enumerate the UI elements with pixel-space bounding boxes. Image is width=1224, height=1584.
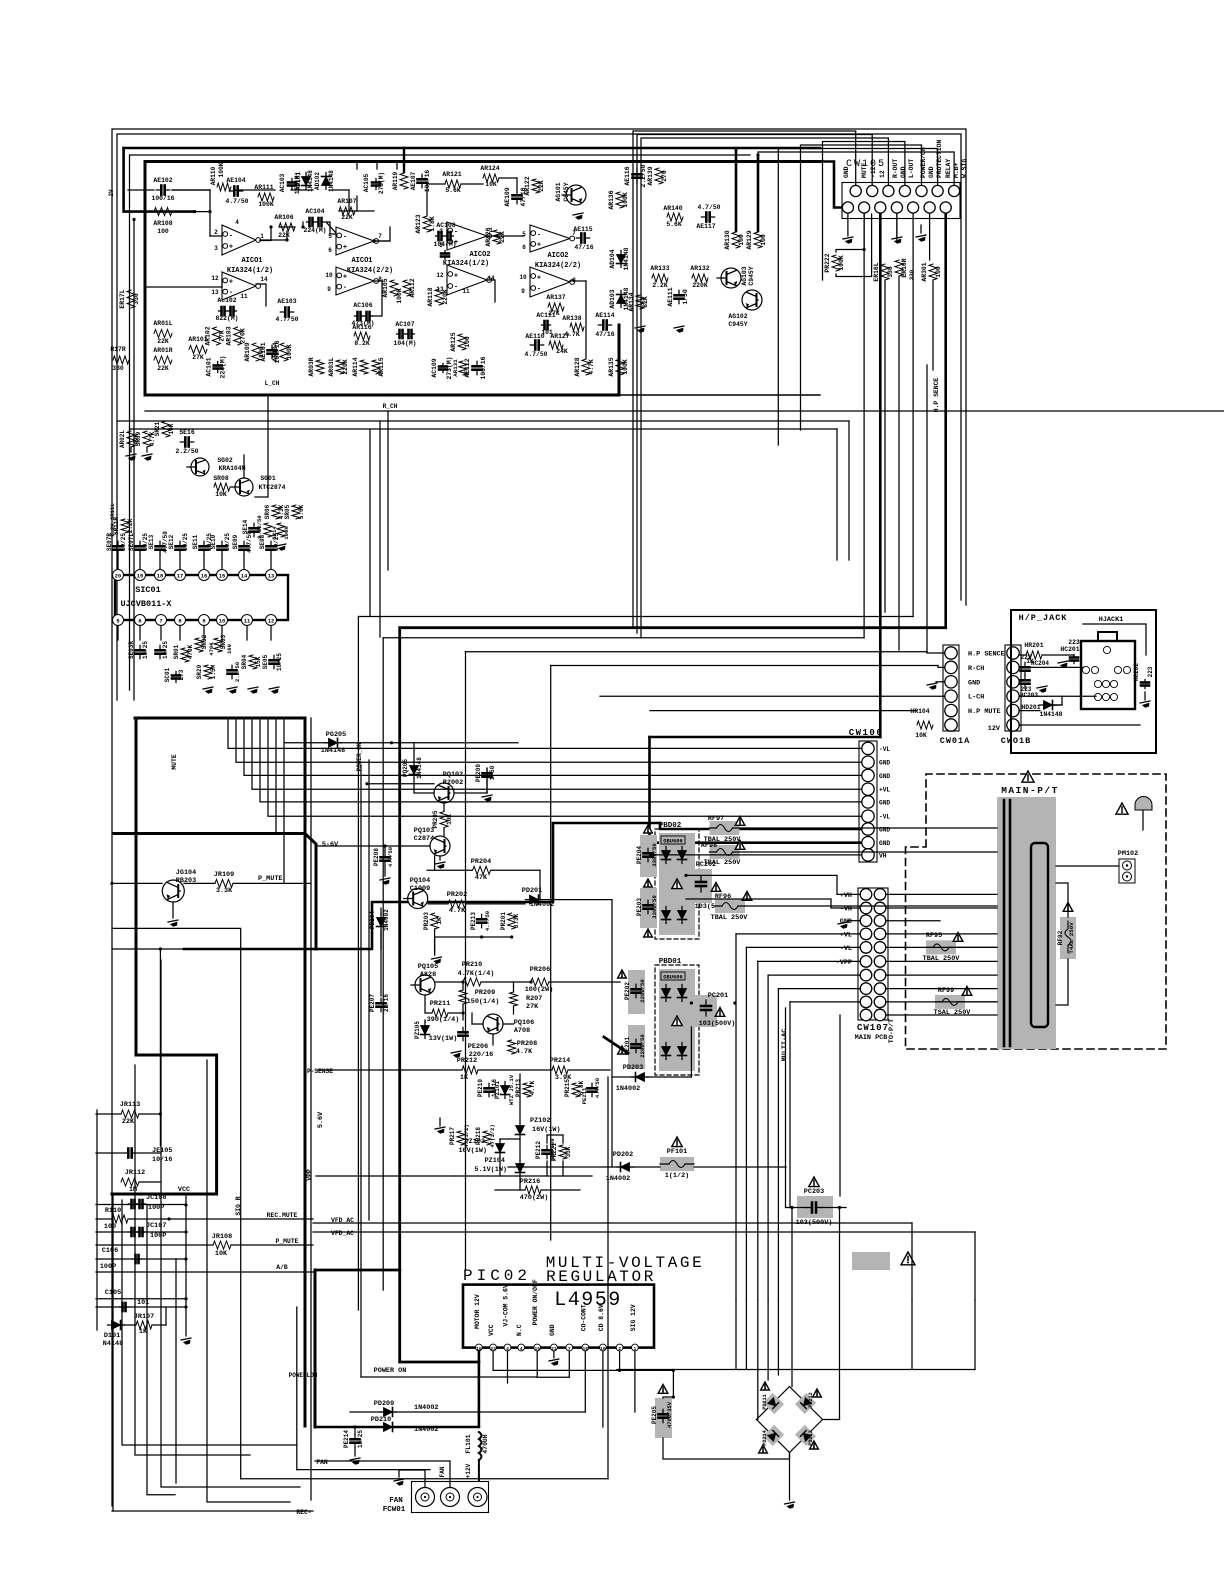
- resistor AR101: [188, 336, 207, 361]
- IC PIC02 title line1: [546, 1254, 705, 1272]
- resistor AR124: [480, 165, 499, 188]
- svg-text:GND: GND: [879, 760, 890, 767]
- wire ER16L down: [884, 280, 886, 612]
- node CW107 +VH label: [840, 892, 852, 900]
- connector FCW01 label: [383, 1497, 406, 1514]
- wire VPP row to PF101: [508, 1166, 786, 1168]
- capacitor HC202: [1133, 663, 1154, 709]
- resistor AR103: [226, 326, 247, 345]
- wire CW106 feed y=762.2: [236, 718, 861, 762]
- capacitor AE110: [524, 333, 547, 358]
- svg-text:SR01: SR01: [173, 644, 180, 659]
- svg-text:1(1/2): 1(1/2): [665, 1172, 689, 1180]
- wire CW106 feed y=816.2: [268, 718, 861, 816]
- svg-text:104(M): 104(M): [433, 241, 456, 248]
- wire PZ chain: [519, 1074, 521, 1190]
- capacitor HC204: [1021, 654, 1050, 676]
- wire AIC02 out to AIC02b: [497, 235, 524, 237]
- zener PZ104: [474, 1157, 524, 1177]
- wire bus 369: [368, 760, 370, 1220]
- wire A/B left segment: [96, 1271, 313, 1273]
- node CW01A L-CH label: [968, 694, 984, 702]
- resistor AR112: [403, 278, 416, 297]
- svg-text:-: -: [229, 289, 233, 297]
- svg-text:AD103: AD103: [609, 289, 616, 308]
- resistor PR222: [824, 214, 872, 277]
- wire rail drop x849: [848, 421, 850, 560]
- svg-text:AE116: AE116: [624, 166, 631, 185]
- svg-text:6: 6: [138, 619, 141, 625]
- wire CW106 feed y=775.4: [244, 718, 861, 775]
- svg-text:100K: 100K: [622, 192, 629, 208]
- svg-text:PC203: PC203: [804, 1188, 824, 1196]
- wire CW107 row feed y=975.1: [768, 974, 860, 976]
- svg-text:3.3K: 3.3K: [513, 913, 520, 928]
- node CW106 -VL label: [879, 814, 890, 821]
- transformer primary bars: [1004, 800, 1010, 1046]
- wire CW107 row feed y=1001.9: [790, 1001, 860, 1003]
- node PIC02 pin 8 CO-CONT: [580, 1304, 588, 1352]
- wire AC103 node: [339, 190, 357, 211]
- svg-text:22K: 22K: [122, 1118, 135, 1126]
- wire nest v4: [551, 666, 944, 1241]
- svg-text:10: 10: [519, 274, 527, 281]
- connector CW106 label: [849, 728, 884, 738]
- wire SIG 12V down: [634, 1351, 636, 1412]
- svg-text:4.7K(1/4): 4.7K(1/4): [458, 970, 495, 978]
- svg-text:SR06: SR06: [264, 504, 271, 519]
- wire PE207 net: [380, 932, 382, 996]
- diode AD103: [609, 287, 630, 310]
- resistor AR122: [524, 176, 545, 195]
- resistor PR217: [449, 1124, 470, 1148]
- wire pin10 down: [619, 1351, 621, 1370]
- capacitor PC203: [786, 1177, 846, 1227]
- wire PE205 to bridge bottom: [663, 1438, 790, 1459]
- svg-text:10K: 10K: [215, 1250, 228, 1258]
- svg-text:100K: 100K: [218, 162, 225, 177]
- diode PBD02 D4: [678, 907, 687, 924]
- node PIC02 pin 4 N.C: [516, 1324, 524, 1352]
- svg-text:100K: 100K: [622, 359, 629, 375]
- svg-text:1K: 1K: [460, 1074, 469, 1082]
- node REC- label: [296, 1509, 311, 1516]
- resistor R110: [104, 1207, 128, 1231]
- svg-text:PR206: PR206: [530, 966, 550, 974]
- connector CW105 bottom pin row: [842, 202, 951, 213]
- svg-text:5: 5: [116, 619, 119, 625]
- svg-text:-VPP: -VPP: [836, 959, 852, 967]
- svg-text:C945Y: C945Y: [748, 266, 755, 285]
- svg-text:4.7K: 4.7K: [588, 359, 595, 375]
- svg-text:270: 270: [661, 170, 668, 182]
- svg-text:22K: 22K: [341, 214, 353, 221]
- wire PZ103 branch: [500, 1139, 520, 1176]
- svg-text:4.7/50: 4.7/50: [697, 204, 720, 211]
- resistor AR125: [450, 332, 471, 351]
- svg-text:6: 6: [522, 244, 526, 251]
- svg-text:SIC01: SIC01: [135, 585, 161, 595]
- transformer body: [997, 797, 1056, 1049]
- svg-text:PE207: PE207: [369, 994, 376, 1012]
- svg-text:15K: 15K: [255, 656, 262, 667]
- svg-text:2.2K SR11L: 2.2K SR11L: [109, 503, 116, 537]
- svg-text:AR103: AR103: [226, 326, 233, 345]
- wire CW107 right y=1015: [886, 1014, 997, 1016]
- svg-text:PE214: PE214: [343, 1430, 350, 1448]
- wire VCC row: [493, 1351, 675, 1372]
- svg-text:330: 330: [112, 365, 124, 372]
- node CW105 L-OUT label: [908, 159, 915, 178]
- resistor SR03: [214, 634, 233, 654]
- svg-text:7: 7: [378, 233, 382, 240]
- svg-text:PR205: PR205: [432, 810, 439, 828]
- diode AD101: [302, 170, 315, 192]
- wire CW107 drop x=778.4: [777, 989, 779, 1300]
- svg-text:ER16R: ER16R: [901, 258, 908, 277]
- wire REC- line: [112, 1510, 313, 1512]
- svg-text:AE110: AE110: [525, 333, 544, 340]
- connector CW107 label: [855, 1023, 889, 1042]
- resistor HR104: [910, 708, 933, 739]
- svg-text:PD212: PD212: [808, 1392, 814, 1408]
- wire thick power box top/right: [135, 718, 305, 1426]
- svg-text:PQ103: PQ103: [414, 827, 434, 835]
- IC SIC01 body: [115, 575, 288, 620]
- svg-text:1/50: 1/50: [682, 289, 689, 305]
- svg-text:REC.MUTE: REC.MUTE: [267, 1212, 298, 1219]
- svg-text:JE105: JE105: [152, 1147, 172, 1155]
- wire ER16R down: [898, 276, 900, 650]
- svg-text:10/25: 10/25: [224, 533, 231, 551]
- inductor FL101: [465, 1432, 489, 1481]
- resistor PR216: [520, 1178, 549, 1202]
- wire CW106 feed y=789.2: [252, 718, 861, 789]
- svg-text:1N4148: 1N4148: [623, 247, 630, 270]
- wire bus x=311: [310, 718, 312, 1500]
- svg-text:1: 1: [260, 233, 264, 240]
- resistor AR301: [921, 262, 942, 281]
- svg-text:47(1/2): 47(1/2): [489, 1124, 496, 1148]
- node MUTE label: [171, 754, 178, 770]
- wire REC.MUTE net: [96, 1217, 313, 1220]
- wire CW107 right y=947.4: [886, 946, 997, 948]
- wire JR113 net: [96, 1113, 160, 1115]
- capacitor PE207: [369, 994, 390, 1012]
- wire AC104 to AIC01b: [326, 222, 336, 233]
- resistor AR115: [372, 357, 385, 376]
- wire CW106 VH feed: [650, 854, 862, 856]
- svg-text:PR222: PR222: [824, 253, 831, 272]
- node FCW01 pin 3: [468, 1488, 487, 1507]
- svg-text:PD204: PD204: [369, 911, 376, 929]
- node CW106 GND label: [879, 760, 890, 767]
- resistor SR01: [173, 644, 194, 662]
- wire PD203 row: [612, 1027, 691, 1077]
- wire CW01B L-CH to jack: [1019, 695, 1096, 697]
- connector CW105 body: [842, 183, 960, 219]
- svg-text:H.P SENCE: H.P SENCE: [933, 378, 940, 413]
- svg-text:L_CH: L_CH: [265, 380, 280, 387]
- wire AR123: [0, 0, 1, 1]
- svg-text:+12V: +12V: [465, 1463, 472, 1478]
- wire SIC01 bottom pin stub x=222: [221, 626, 223, 641]
- fuse RF96: [711, 892, 752, 923]
- svg-text:PE211: PE211: [581, 1087, 588, 1104]
- svg-text:PZ101: PZ101: [494, 1081, 501, 1099]
- svg-text:1N4148: 1N4148: [1039, 711, 1062, 718]
- svg-text:4.7/50: 4.7/50: [275, 316, 298, 323]
- svg-text:5.1V(1W): 5.1V(1W): [474, 1166, 507, 1174]
- svg-text:12: 12: [436, 272, 444, 279]
- svg-text:AR137: AR137: [546, 294, 565, 301]
- capacitor PE201: [618, 1025, 646, 1069]
- node CW107 pin row 7: [860, 969, 886, 981]
- svg-text:AR107: AR107: [337, 198, 356, 205]
- svg-text:PIC02: PIC02: [463, 1267, 531, 1285]
- svg-text:PE213: PE213: [470, 912, 477, 930]
- svg-text:PQ106: PQ106: [514, 1019, 534, 1027]
- svg-text:-VL: -VL: [879, 814, 890, 821]
- svg-text:SC01: SC01: [164, 667, 171, 682]
- wire outer frame net (top/left/right): [112, 129, 966, 1506]
- wire rail y421: [117, 420, 849, 422]
- resistor PR215: [564, 1079, 585, 1097]
- svg-text:AR109: AR109: [244, 342, 251, 361]
- transistor AG102: [728, 290, 762, 328]
- wire CW107 right y=988.6: [886, 988, 997, 990]
- svg-text:4700/35V: 4700/35V: [667, 1401, 673, 1428]
- svg-text:470(2W): 470(2W): [520, 1194, 549, 1202]
- node SIC01 pin 18: [155, 570, 166, 581]
- svg-text:RF95: RF95: [926, 932, 942, 940]
- capacitor SE05: [262, 653, 283, 695]
- svg-text:17: 17: [177, 574, 183, 580]
- svg-text:1/50: 1/50: [489, 765, 496, 780]
- svg-text:L4959: L4959: [554, 1289, 622, 1312]
- svg-text:SE12: SE12: [168, 534, 175, 549]
- wire left cap net y=1307: [96, 1306, 186, 1308]
- wire SIC01 bottom pin stub x=180: [179, 626, 181, 641]
- svg-text:103(500V): 103(500V): [699, 1020, 736, 1028]
- svg-text:POWER ON/OFF: POWER ON/OFF: [532, 1279, 539, 1325]
- bridge PBD02 part label: [661, 836, 685, 845]
- op-amp AIC02 2/2: [522, 225, 581, 270]
- capacitor C105 label: [105, 1289, 121, 1297]
- svg-text:22K: 22K: [538, 180, 545, 192]
- diode PQ205: [402, 757, 423, 779]
- wire PR205 leads: [443, 803, 445, 836]
- diode PBD02 D3: [662, 907, 671, 924]
- node VCC label: [178, 1186, 190, 1194]
- svg-text:PQ104: PQ104: [410, 877, 430, 885]
- wire x612 PD201 to PD202: [611, 900, 613, 1167]
- node CW01B pin 4: [1007, 690, 1019, 702]
- warning near PM102: [1116, 803, 1128, 814]
- diode AD104: [609, 247, 630, 270]
- capacitor PE203: [636, 888, 658, 937]
- wire RF92 bottom: [1056, 959, 1068, 1005]
- wire CW105 pin5 feed bypass: [801, 145, 922, 430]
- capacitor AE111: [667, 287, 689, 333]
- resistor AR110: [210, 162, 231, 191]
- svg-text:AC103: AC103: [279, 173, 286, 192]
- svg-text:150(1/4): 150(1/4): [467, 998, 500, 1006]
- wire VFD down2: [974, 1232, 976, 1300]
- svg-text:220K: 220K: [692, 282, 708, 289]
- ground bridge output: [785, 1453, 796, 1510]
- node CW01A pin 2: [945, 661, 957, 673]
- connector CW01A label: [940, 736, 971, 746]
- capacitor SE10: [210, 533, 231, 569]
- capacitor AC106: [351, 302, 374, 327]
- svg-text:JC107: JC107: [146, 1222, 166, 1230]
- node CW01B pin 5: [1007, 704, 1019, 716]
- connector PM102: [1118, 850, 1138, 883]
- svg-text:GND: GND: [928, 166, 935, 178]
- wire thick W.SIG to PIC02 pin1: [400, 628, 946, 1362]
- svg-text:10/16: 10/16: [152, 1156, 172, 1164]
- svg-text:2.2K: 2.2K: [127, 518, 134, 533]
- wire PZ105 top lead: [424, 1020, 426, 1022]
- svg-text:HC202: HC202: [1133, 663, 1140, 681]
- module MAIN-P/T outline: [906, 774, 1167, 1049]
- node CW106 pin 4: [862, 783, 874, 795]
- svg-text:KTC2874: KTC2874: [259, 484, 286, 491]
- svg-text:19: 19: [137, 574, 143, 580]
- svg-text:5: 5: [522, 231, 526, 238]
- svg-text:AR301: AR301: [921, 262, 928, 281]
- svg-text:-VL: -VL: [840, 945, 852, 953]
- resistor PR203: [423, 912, 443, 930]
- resistor SR09: [135, 431, 156, 461]
- node CW106 VH label: [879, 852, 887, 859]
- wire loop3 bend right: [297, 1469, 430, 1471]
- svg-text:1N4002: 1N4002: [616, 1085, 640, 1093]
- node VFD_AC label 1: [331, 1217, 354, 1224]
- svg-text:PZ105: PZ105: [414, 1021, 421, 1039]
- svg-text:L-OUT: L-OUT: [908, 159, 915, 178]
- node PIC02 pin 6 GND: [549, 1324, 557, 1352]
- resistor JR113: [120, 1101, 140, 1126]
- node FCW01 pin labels: [439, 1463, 472, 1478]
- resistor AR03R: [308, 357, 324, 376]
- resistor JR112: [121, 1169, 145, 1194]
- wire RF99 to transformer: [965, 1001, 997, 1003]
- wire H.P MUTE to CW01A: [650, 710, 917, 712]
- capacitor SE09: [232, 531, 253, 569]
- wire CW107 right y=933.9: [886, 933, 997, 935]
- wire CD8.6V down: [602, 1351, 604, 1427]
- svg-text:100: 100: [760, 234, 767, 246]
- svg-text:PD201: PD201: [522, 887, 542, 895]
- wire drop x768 ext: [767, 1300, 769, 1380]
- node SIC01 pin 19: [135, 570, 146, 581]
- wire left loop 3: [296, 1307, 298, 1470]
- svg-text:WTZ J5.1V: WTZ J5.1V: [508, 1074, 515, 1105]
- svg-text:AR132: AR132: [690, 265, 709, 272]
- svg-text:330: 330: [908, 269, 915, 280]
- wire CW106 feed y=801.9: [260, 718, 861, 802]
- resistor AR105: [382, 278, 403, 303]
- connector CW01A body: [943, 645, 959, 731]
- wire drop x736 ext: [735, 1300, 737, 1370]
- svg-text:AC101: AC101: [206, 357, 213, 376]
- wire left bus line x134: [132, 218, 135, 700]
- svg-text:SE07L: SE07L: [128, 533, 135, 551]
- svg-text:CWO1B: CWO1B: [1001, 736, 1032, 746]
- diode PBD01 D1: [662, 985, 671, 1002]
- wire PR204 row: [427, 856, 540, 900]
- svg-text:33K: 33K: [565, 1146, 572, 1157]
- node VFD_AC label 2: [331, 1230, 354, 1237]
- capacitor AE101: [260, 340, 281, 363]
- wire nest v3: [466, 652, 945, 1270]
- wire SIC01 bottom pin stub x=247: [246, 626, 248, 641]
- node POWER ON label: [374, 1367, 407, 1375]
- wire CW107 row feed y=947.4: [746, 946, 860, 948]
- svg-text:100K: 100K: [396, 288, 403, 304]
- node SIC01 pin 9: [199, 615, 210, 626]
- node CW105 PROTECTION label: [936, 139, 943, 178]
- svg-text:1N4002: 1N4002: [383, 909, 390, 931]
- svg-text:VJ-COM 5.6V: VJ-COM 5.6V: [503, 1284, 510, 1326]
- diode PBD01 D2: [678, 985, 687, 1002]
- svg-text:AE109: AE109: [504, 187, 511, 206]
- resistor SR11R: [113, 517, 134, 535]
- node CW107 pin row 1: [860, 889, 886, 901]
- capacitor AC103: [279, 172, 301, 194]
- svg-text:224(M): 224(M): [303, 227, 326, 234]
- wire thick A/B vertical: [314, 1270, 317, 1427]
- svg-text:822(M): 822(M): [215, 315, 238, 322]
- svg-text:+: +: [454, 272, 458, 280]
- wire: [0, 0, 1, 1]
- svg-text:-VL: -VL: [879, 746, 890, 753]
- svg-text:1.8K: 1.8K: [429, 216, 436, 232]
- capacitor SE03R: [128, 641, 149, 659]
- capacitor AE114: [595, 312, 614, 338]
- node PIC02 pin 2 VCC: [488, 1324, 496, 1352]
- svg-text:100(2W): 100(2W): [525, 986, 554, 994]
- svg-text:AE107: AE107: [410, 171, 417, 190]
- node junction dots amp box: [266, 234, 498, 396]
- capacitor AE116: [624, 164, 647, 187]
- node CW01A pin 3: [945, 676, 957, 688]
- svg-text:24K: 24K: [556, 348, 568, 355]
- svg-text:PC201: PC201: [708, 992, 728, 1000]
- node CW106 pin 7: [862, 823, 874, 835]
- svg-text:R207: R207: [526, 995, 542, 1003]
- node CW01A H.P MUTE label: [968, 708, 1001, 716]
- wire RF97 to transformer: [740, 827, 997, 829]
- svg-text:FAN: FAN: [316, 1459, 328, 1466]
- svg-text:273: 273: [178, 669, 185, 680]
- module H/P_JACK label: [1019, 613, 1068, 623]
- svg-text:AC106: AC106: [353, 302, 372, 309]
- op-amp AIC01 buffer: [211, 272, 268, 300]
- svg-text:PR215: PR215: [564, 1079, 571, 1097]
- node CW106 pin 6: [862, 810, 874, 822]
- svg-text:PR201: PR201: [500, 912, 507, 930]
- node CW01B 12V label: [988, 725, 1001, 733]
- svg-text:RELAY: RELAY: [945, 159, 952, 178]
- svg-text:100P: 100P: [148, 1204, 164, 1212]
- node CW107 -VL label: [840, 945, 852, 953]
- svg-text:47(1/2): 47(1/2): [463, 1124, 470, 1148]
- node CW107 +VL label: [840, 931, 852, 939]
- node CW107 pin row 9: [860, 996, 886, 1008]
